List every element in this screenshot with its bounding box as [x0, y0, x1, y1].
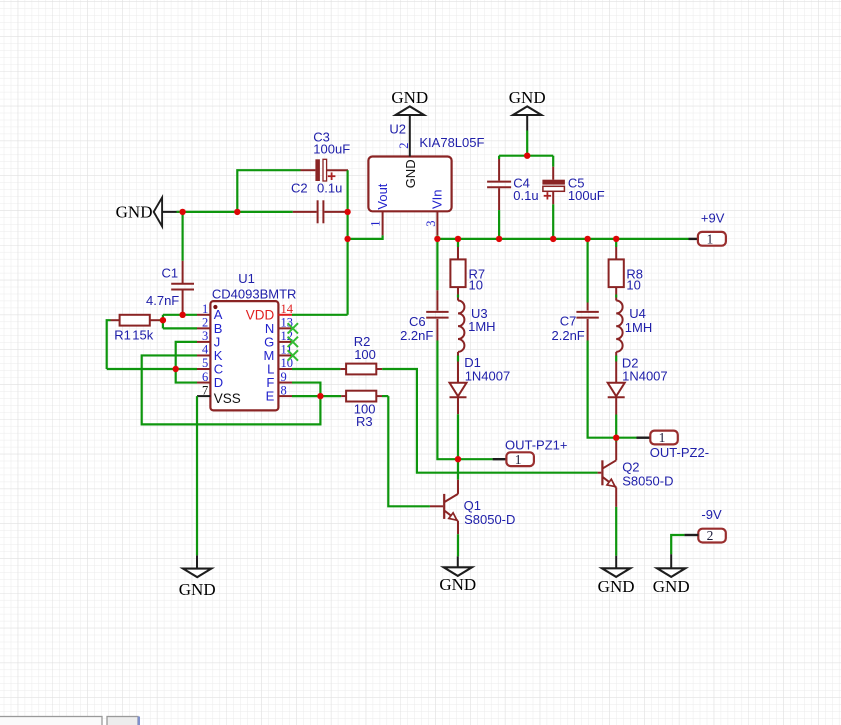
junction C7 on rail — [584, 236, 590, 242]
U1 pin 1 — [197, 302, 223, 322]
no-connect cross U1 pin13 — [288, 323, 298, 333]
junction OUT-PZ2 — [613, 435, 619, 441]
svg-text:1: 1 — [369, 221, 383, 227]
svg-text:1: 1 — [202, 302, 208, 316]
wire C6 bottom to OUT-PZ1 junction — [437, 341, 458, 460]
svg-text:Q1: Q1 — [464, 498, 481, 513]
U1 pin 9 — [266, 370, 292, 390]
U1 pin 6 — [197, 370, 223, 390]
wire U1 pin14 (VDD) to +5V vertical — [292, 314, 348, 316]
U1 pin 8 — [266, 383, 292, 403]
svg-text:GND: GND — [598, 577, 635, 596]
wire R3 to Q1 base — [388, 396, 430, 506]
net port 2 -9V — [698, 507, 726, 543]
U1 pin 10 — [267, 356, 293, 376]
wire C4 top lead — [498, 156, 500, 159]
junction at GND flag / C1 branch — [179, 209, 185, 215]
svg-text:1MH: 1MH — [468, 319, 495, 334]
wire C4 bottom to rail — [498, 210, 500, 239]
svg-text:9: 9 — [281, 370, 287, 384]
svg-text:+9V: +9V — [701, 211, 725, 226]
capacitor C7 2.2nF — [552, 303, 599, 344]
svg-text:0.1u: 0.1u — [317, 181, 342, 196]
ground flag GND below U1 — [183, 569, 211, 578]
svg-text:2: 2 — [397, 143, 411, 149]
ground flag GND above U2 — [396, 106, 424, 115]
ground flag GND for -9V — [657, 568, 685, 577]
U1 pin1 marker dot — [213, 305, 217, 309]
svg-text:3: 3 — [202, 329, 208, 343]
svg-text:OUT-PZ1+: OUT-PZ1+ — [505, 437, 568, 452]
U2 pin 1 Vout — [369, 183, 390, 235]
svg-text:U1: U1 — [238, 271, 255, 286]
capacitor C5 100uF (polarized) — [542, 167, 604, 205]
wire R3 right lead — [382, 395, 388, 397]
svg-text:2: 2 — [202, 316, 208, 330]
svg-text:100uF: 100uF — [568, 188, 605, 203]
svg-text:10: 10 — [626, 277, 640, 292]
junction pin3/pin6 vertical on pin5 wire — [173, 366, 179, 372]
junction GND stem on C4-C5 wire — [524, 153, 530, 159]
wire -9V to GND — [671, 535, 684, 554]
wire C5 bottom to rail — [552, 204, 554, 239]
U1 pin 14 — [246, 302, 294, 322]
capacitor C6 2.2nF — [400, 290, 449, 343]
junction R7 on rail — [455, 236, 461, 242]
svg-text:GND: GND — [391, 88, 428, 107]
wire D2 to OUT-PZ2 junction — [615, 398, 617, 415]
transistor Q2 S8050-D — [598, 442, 674, 507]
svg-text:GND: GND — [439, 575, 476, 594]
sheet tab 1 — [0, 717, 102, 725]
capacitor C4 0.1u — [487, 159, 539, 210]
IC U1 CD4093BMTR body — [210, 271, 296, 410]
U1 pin 11 — [263, 343, 292, 363]
capacitor C2 0.1u — [291, 181, 346, 224]
U1 pin 12 — [264, 329, 293, 349]
wire pin2 horizontal — [163, 327, 197, 329]
wire +9V port stub — [689, 238, 698, 240]
U1 pin 5 — [197, 356, 223, 376]
U1 pin 7 — [197, 383, 241, 406]
svg-text:KIA78L05F: KIA78L05F — [419, 135, 484, 150]
ground flag GND below Q1 — [444, 567, 472, 576]
wire R2 to Q2 base — [382, 369, 597, 473]
resistor R8 10 — [609, 247, 643, 292]
resistor R1 15k — [111, 315, 160, 343]
wire pin5 horizontal — [107, 368, 197, 370]
wire OUT-PZ2 port stub — [616, 437, 636, 439]
svg-text:C7: C7 — [560, 314, 577, 329]
svg-text:C2: C2 — [291, 181, 308, 196]
resistor R3 100 — [341, 391, 382, 429]
svg-text:S8050-D: S8050-D — [622, 473, 673, 488]
svg-text:U4: U4 — [629, 306, 646, 321]
voltage regulator U2 KIA78L05F — [368, 122, 484, 212]
wire C6 branch from rail — [436, 239, 438, 290]
svg-text:R1: R1 — [114, 328, 131, 343]
wire rail to R7 — [457, 239, 459, 247]
net port 1 OUT-PZ1+ — [505, 437, 568, 466]
svg-text:2.2nF: 2.2nF — [552, 328, 585, 343]
svg-text:4.7nF: 4.7nF — [146, 293, 179, 308]
svg-text:GND: GND — [653, 577, 690, 596]
svg-text:1N4007: 1N4007 — [622, 369, 668, 384]
net port 1 +9V — [698, 211, 726, 247]
wire pin1-pin2 vertical — [162, 315, 164, 329]
svg-text:GND: GND — [179, 580, 216, 599]
wire Q2 emitter to GND — [615, 507, 617, 556]
wire +5V vertical (C3/C2/Vout/VDD) — [347, 170, 349, 315]
ground flag GND (left) — [116, 198, 177, 227]
wire C3 left branch — [237, 170, 300, 212]
junction R8 on rail — [613, 236, 619, 242]
wire GND stem above C4/C5 — [526, 131, 528, 156]
wire U4 to D2 — [615, 352, 617, 356]
wire pin8 to R3 — [292, 395, 341, 397]
no-connect cross U1 pin11 — [288, 350, 298, 360]
U1 pin 2 — [197, 316, 222, 336]
U2 pin 2 GND stem — [397, 115, 418, 188]
junction C2 on +5V vertical — [344, 209, 350, 215]
wire C7 bottom to OUT-PZ2 junction — [588, 341, 617, 438]
svg-text:2.2nF: 2.2nF — [400, 328, 433, 343]
svg-text:2: 2 — [707, 528, 714, 543]
junction R1 right — [160, 317, 166, 323]
svg-text:S8050-D: S8050-D — [464, 512, 515, 527]
svg-text:6: 6 — [202, 370, 208, 384]
ground flag GND above C4/C5 — [513, 106, 541, 115]
svg-text:OUT-PZ2-: OUT-PZ2- — [650, 445, 709, 460]
wire C5 top lead — [552, 156, 554, 167]
U2 pin 3 Vin — [424, 189, 445, 235]
svg-text:3: 3 — [424, 221, 438, 227]
wire Vout to +5V vertical — [348, 235, 383, 239]
wire pin1 horizontal — [163, 314, 197, 316]
svg-text:100: 100 — [354, 347, 376, 362]
wire R8 to U4 — [615, 287, 617, 294]
svg-text:GND: GND — [116, 202, 153, 221]
svg-text:0.1u: 0.1u — [513, 188, 538, 203]
svg-text:C1: C1 — [162, 265, 179, 280]
net port 1 OUT-PZ2- — [650, 430, 709, 460]
svg-text:Vout: Vout — [375, 183, 390, 209]
wire pin4 loop to pin8 net — [142, 355, 321, 424]
capacitor C1 4.7nF — [146, 261, 194, 314]
wire U3 to D1 — [457, 352, 459, 356]
svg-text:4: 4 — [202, 343, 209, 357]
svg-text:D: D — [214, 375, 223, 390]
svg-text:100uF: 100uF — [313, 141, 350, 156]
svg-text:14: 14 — [281, 302, 294, 316]
svg-text:GND: GND — [403, 159, 418, 188]
svg-text:7: 7 — [202, 383, 208, 397]
wire C7 branch from rail — [586, 239, 588, 303]
wire Q2 collector from OUT-PZ2 junction — [615, 438, 617, 442]
svg-text:VSS: VSS — [214, 391, 241, 406]
U1 pin 3 — [197, 329, 220, 349]
svg-text:Q2: Q2 — [622, 460, 639, 475]
inductor U4 1MH — [616, 301, 652, 352]
junction C4 on rail — [496, 236, 502, 242]
wire C1 top branch — [182, 212, 184, 261]
inductor U3 1MH — [458, 301, 496, 352]
junction pin8/pin9/pin4 net — [317, 393, 323, 399]
junction C1 on pin1 wire — [179, 312, 185, 318]
svg-text:GND: GND — [509, 88, 546, 107]
wire +9V rail — [437, 238, 688, 240]
junction C3 branch on GND wire — [234, 209, 240, 215]
diode D1 1N4007 — [450, 355, 511, 397]
resistor R2 100 — [340, 334, 382, 375]
wire R1 right to pin1/pin2 net — [160, 319, 163, 321]
U1 pin 4 — [197, 343, 223, 363]
svg-text:C6: C6 — [409, 314, 426, 329]
junction OUT-PZ1 — [455, 456, 461, 462]
transistor Q1 S8050-D — [430, 480, 516, 535]
wire R7 to U3 — [457, 287, 459, 294]
capacitor C3 100uF (polarized) — [301, 130, 351, 182]
wire D1 to OUT-PZ1 junction — [457, 398, 459, 414]
diode D2 1N4007 — [608, 356, 668, 398]
wire pin3 to pin6 vertical — [176, 342, 197, 383]
wire GND flag to C2.1 — [177, 211, 293, 213]
wire pin7 VSS down to GND — [196, 396, 198, 555]
resistor R7 10 — [450, 247, 485, 292]
svg-text:8: 8 — [281, 383, 287, 397]
svg-text:10: 10 — [469, 277, 483, 292]
junction C5 on rail — [550, 236, 556, 242]
svg-text:-9V: -9V — [701, 507, 722, 522]
sheet tab 2 — [107, 717, 138, 725]
svg-text:1MH: 1MH — [625, 320, 652, 335]
wire -9V port stub — [684, 534, 698, 536]
svg-text:R3: R3 — [356, 414, 373, 429]
svg-text:1: 1 — [707, 231, 714, 246]
wire Q1 emitter to GND — [457, 534, 459, 556]
junction Vin/C6 on rail — [434, 236, 440, 242]
wire OUT-PZ1 junction to Q1 collector — [457, 459, 459, 480]
wire C4-C5 top with GND stem — [499, 155, 553, 157]
wire pin9 to pin8 net — [292, 383, 320, 397]
wire C2 right to +5V vertical — [346, 211, 348, 213]
svg-text:15k: 15k — [132, 328, 153, 343]
wire pin10 to R2 — [292, 368, 340, 370]
svg-text:CD4093BMTR: CD4093BMTR — [212, 286, 297, 301]
wire R1 left to pin5 net — [107, 320, 111, 369]
svg-text:VIn: VIn — [430, 189, 445, 209]
wire Vin pin to rail — [436, 235, 438, 239]
wire rail to R8 — [615, 239, 617, 247]
svg-text:1N4007: 1N4007 — [465, 369, 511, 384]
svg-text:5: 5 — [202, 356, 208, 370]
U1 pin 13 — [265, 316, 293, 336]
svg-text:E: E — [266, 389, 275, 404]
svg-text:1: 1 — [515, 452, 522, 467]
junction Vout corner on +5V vertical — [344, 236, 350, 242]
ground flag GND below Q2 — [602, 568, 630, 577]
svg-text:U2: U2 — [389, 122, 406, 137]
wire OUT-PZ1 port stub — [458, 458, 493, 460]
svg-text:1: 1 — [659, 430, 666, 445]
no-connect cross U1 pin12 — [288, 337, 298, 347]
